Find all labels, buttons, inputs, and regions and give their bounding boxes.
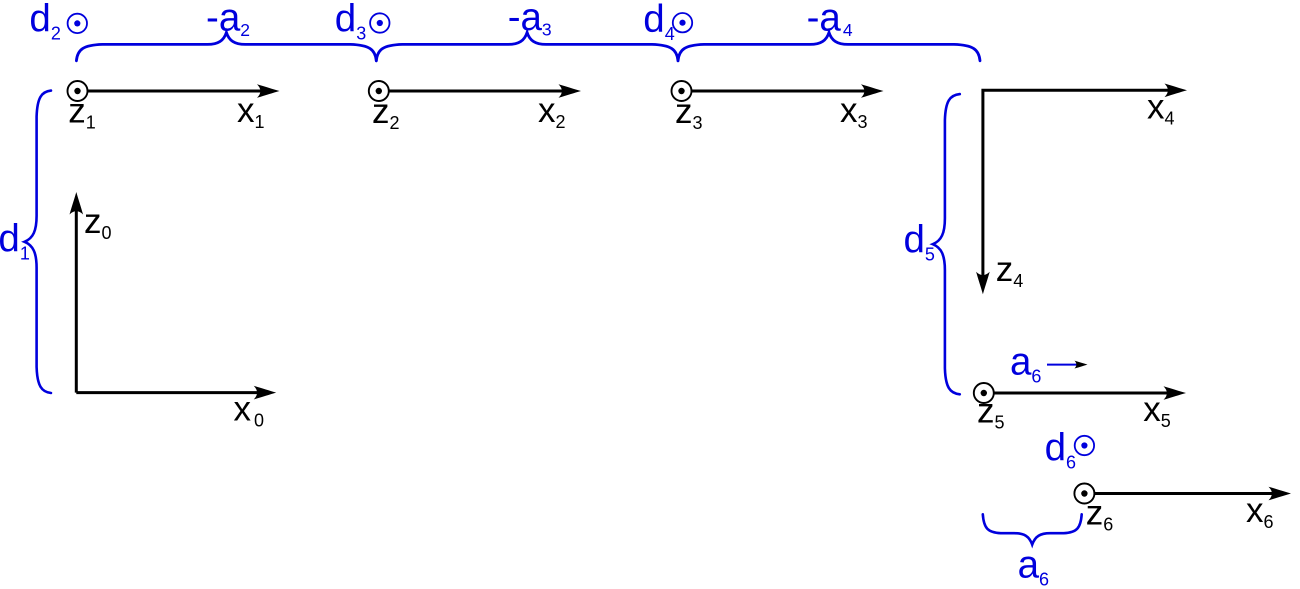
frame3 origin circled-dot z3 [672, 81, 692, 101]
svg-text:z0: z0 [84, 202, 112, 243]
frame5 origin circled-dot z5 [974, 383, 994, 403]
frame3 x3 axis [692, 90, 866, 93]
svg-text:d5: d5 [904, 219, 935, 265]
svg-text:z6: z6 [1086, 494, 1114, 535]
svg-text:x6: x6 [1246, 491, 1274, 532]
frame5 x5 axis [994, 392, 1169, 395]
frame0 z0 axis (up arrow) [75, 209, 78, 393]
svg-text:d6: d6 [1045, 427, 1076, 473]
svg-text:z1: z1 [68, 91, 96, 132]
frame4 x4 arrowhead [1165, 84, 1188, 98]
svg-text:-a3: -a3 [508, 0, 552, 40]
svg-text:x1: x1 [237, 91, 265, 132]
brace -a4 (z3 to frame4) [678, 32, 980, 60]
brace -a3 (z2 to z3) [376, 32, 678, 60]
svg-text:x3: x3 [840, 91, 868, 132]
svg-text:d3: d3 [335, 0, 366, 44]
frame6 origin circled-dot z6 [1074, 484, 1094, 504]
svg-text:z3: z3 [675, 92, 703, 133]
svg-text:a6: a6 [1010, 340, 1041, 386]
svg-text:d2: d2 [29, 0, 60, 44]
frame1 x1 axis [88, 90, 262, 93]
symbol circled-dot d6 [1075, 436, 1094, 455]
frame4 z4 arrowhead (down) [976, 272, 990, 295]
brace d5 [933, 94, 960, 394]
frame6 x6 axis [1095, 492, 1274, 495]
brace a6 (z5 to z6 offset) [983, 514, 1082, 544]
svg-text:z4: z4 [996, 250, 1024, 291]
svg-text:x2: x2 [538, 91, 566, 132]
a6 annotation arrow line [1047, 364, 1078, 366]
frame0 x0 axis (right arrow) [76, 391, 259, 394]
svg-text:d4: d4 [643, 0, 674, 44]
frame2 origin circled-dot z2 [369, 81, 389, 101]
svg-text:a6: a6 [1018, 544, 1049, 589]
symbol circled-dot above z2 [370, 13, 389, 32]
symbol circled-dot above z1 [68, 14, 87, 33]
brace -a2 (z1 to z2) [76, 32, 376, 60]
a6 annotation arrowhead [1074, 361, 1087, 369]
svg-text:z2: z2 [372, 92, 400, 133]
frame4 corner wire [983, 90, 1170, 276]
brace d1 [25, 91, 52, 393]
symbol circled-dot above z3 [673, 13, 692, 32]
frame1 origin circled-dot z1 [68, 81, 88, 101]
svg-text:z5: z5 [977, 392, 1005, 433]
frame2 x2 axis [389, 90, 564, 93]
